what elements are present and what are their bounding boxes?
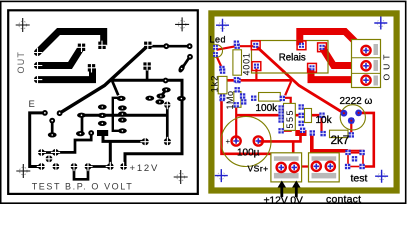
resistor 2k7 body — [330, 130, 349, 137]
square pad S2 — [88, 64, 95, 71]
pad oval E9 — [177, 63, 186, 73]
wire: drop to oval x82 — [81, 115, 84, 132]
fiducial crosshair bottom-left — [20, 167, 28, 175]
wire: S5 stub down — [146, 66, 149, 80]
relay pad K2 — [308, 63, 317, 72]
relay pad K4 — [251, 41, 260, 50]
pad D5 — [42, 110, 48, 116]
capacitor C1 pad + — [232, 136, 241, 145]
wire: pad row horiz — [88, 165, 110, 168]
svg-text:test: test — [351, 172, 368, 184]
red cluster diag — [237, 90, 242, 96]
pad P8 bottom row — [107, 163, 114, 170]
wire: cap horizontal y141 — [103, 136, 145, 141]
component pad rectangle (black) — [97, 130, 108, 136]
red short horiz — [348, 151, 362, 153]
relay outline — [252, 41, 329, 74]
arrow +12V — [280, 184, 283, 198]
pad B18 blue — [235, 87, 240, 92]
pad P7 bottom row — [85, 163, 92, 170]
left board outline — [8, 10, 198, 194]
svg-text:+12V 0V: +12V 0V — [264, 194, 303, 206]
pad near 2k7 — [300, 128, 305, 133]
test button pad 5 — [345, 164, 350, 169]
pad oval E2 — [48, 132, 57, 137]
transistor Q1 pad 2 — [341, 110, 348, 117]
resistor 1k2 body — [218, 76, 227, 93]
fiducial crosshair top-left — [19, 21, 27, 29]
relay pad K5 — [252, 62, 261, 71]
red long diagonal — [256, 46, 344, 113]
svg-text:Relais: Relais — [279, 52, 306, 63]
test button red outline — [348, 151, 363, 167]
pad OUT2 — [34, 62, 41, 69]
pad P2 bottom row — [52, 149, 59, 156]
wire: top thin to LED pads — [148, 45, 190, 48]
red wire T1 — [300, 32, 366, 53]
svg-text:100k: 100k — [256, 103, 279, 114]
pad B12 blue — [278, 128, 283, 133]
svg-text:OUT: OUT — [382, 51, 392, 81]
wire T2 thick — [38, 47, 82, 65]
transistor 2222 outline — [340, 105, 365, 130]
terminal block +12V/0V — [271, 153, 302, 182]
pad P9 bottom row — [120, 163, 127, 170]
svg-text:2222 ω: 2222 ω — [340, 96, 373, 107]
pad cap+ — [142, 138, 149, 145]
pad B4 blue — [310, 130, 315, 135]
resistor 1k2 pad 2 — [220, 94, 225, 99]
pad B21 blue — [219, 66, 224, 71]
svg-text:555: 555 — [285, 109, 295, 129]
terminal block OUT (vertical 3pos) — [352, 40, 381, 88]
pad P6 bottom row — [71, 163, 78, 170]
blue crosshair bottom-right — [378, 173, 385, 180]
wire: vertical to pad row — [109, 141, 112, 166]
pad D3 — [187, 54, 193, 60]
pad D1 — [163, 43, 169, 49]
pad B11 blue — [278, 117, 283, 122]
diode D1 pad 2 — [234, 77, 239, 82]
svg-text:2k7: 2k7 — [331, 133, 350, 147]
pad B22 blue — [234, 102, 239, 107]
pad oval E4 — [145, 96, 154, 101]
pad cap- — [164, 138, 171, 145]
red pad row horiz — [293, 165, 315, 167]
capacitor 100u outline — [221, 117, 271, 167]
svg-text:VSr+: VSr+ — [248, 164, 269, 174]
test button pad 4 — [359, 164, 364, 169]
wire: mid horizontal y115 — [82, 114, 167, 117]
wire: E net L-shape — [30, 113, 45, 167]
pad B8 blue — [280, 96, 285, 101]
wire: U bottom — [74, 167, 88, 179]
pad D7 — [49, 118, 55, 124]
red wire T3 — [311, 68, 366, 80]
pad IC-B5 — [118, 128, 127, 133]
pad oval E1 — [77, 113, 86, 118]
red drop to pad x321 — [320, 115, 322, 132]
red diag O1 — [285, 81, 291, 95]
red wire E-net — [359, 113, 374, 167]
square pad S4 — [144, 42, 151, 49]
svg-text:OUT: OUT — [16, 51, 26, 74]
resistor 100k body — [259, 93, 281, 102]
red vertical to pad row — [292, 141, 295, 166]
OUT terminal pad 2 — [361, 61, 370, 70]
pad B7 blue — [299, 121, 304, 126]
pad IC-B2 — [118, 105, 127, 110]
svg-text:TEST B.P. O VOLT: TEST B.P. O VOLT — [32, 182, 134, 192]
wire: vertical x167 — [166, 105, 169, 142]
pad B1 blue — [235, 44, 240, 49]
square pad S3 — [98, 42, 105, 49]
blue crosshair bottom-left — [218, 172, 225, 179]
terminal block contact — [309, 153, 340, 182]
svg-text:1Mo: 1Mo — [225, 90, 235, 109]
test button pad 3 — [352, 156, 357, 161]
OUT terminal pad 3 — [361, 76, 370, 85]
test button pad 2 — [345, 150, 350, 155]
wire: mid horizontal y80 with right drop — [112, 80, 182, 166]
LED pad anode — [213, 45, 218, 50]
wire: long diagonal — [60, 46, 148, 113]
relay pad K3 — [297, 41, 306, 50]
pad D6 — [57, 110, 63, 116]
pad top of x167 — [164, 102, 171, 109]
wire: LED diagonal — [182, 57, 190, 69]
transistor Q1 pad 3 — [348, 117, 355, 124]
pad B14 blue — [349, 132, 354, 137]
diode D1 pad 1 — [234, 41, 239, 46]
pad B15 blue — [320, 131, 325, 136]
right board olive border — [211, 13, 396, 190]
fiducial crosshair bottom-right — [177, 173, 185, 181]
IC 555 body — [284, 103, 296, 130]
pad IC-B3 — [118, 111, 127, 116]
red top thin to LED — [217, 46, 256, 50]
arrow 0V — [295, 184, 298, 198]
red S5 stub — [255, 66, 257, 80]
OUT terminal pad 1 — [361, 46, 370, 55]
wire: IC vertical — [113, 98, 122, 131]
red wire T2 — [322, 47, 366, 65]
wire: short horiz pads — [41, 151, 55, 154]
pad B17 blue — [240, 93, 245, 98]
wire T3 thick — [38, 68, 93, 80]
pad B2 blue — [235, 78, 240, 83]
diode 4001 body — [233, 50, 242, 75]
resistor 10k body — [305, 109, 312, 123]
pad oval E6 — [162, 87, 171, 92]
red vertical x167 — [235, 105, 237, 142]
pad OUT3 — [34, 76, 41, 83]
wire: transistor path P — [56, 133, 92, 152]
LED pad cathode — [213, 52, 218, 57]
svg-text:Led: Led — [210, 34, 227, 44]
svg-text:+: + — [226, 137, 231, 146]
pad oval E5 — [157, 93, 166, 98]
red LED to 1k2 — [216, 55, 223, 70]
pad B3 blue — [349, 118, 354, 123]
svg-text:1k2: 1k2 — [209, 75, 220, 93]
relay pad K1 — [318, 43, 327, 52]
pad B10 blue — [278, 111, 283, 116]
blue crosshair top-left — [219, 22, 226, 29]
square pad S5 — [143, 62, 150, 69]
pad D8 — [88, 130, 94, 136]
pad IC-A3 — [98, 121, 107, 126]
resistor 1Mo body — [234, 92, 241, 108]
capacitor C1 pad - — [254, 136, 263, 145]
svg-text:10k: 10k — [316, 115, 333, 126]
square pad S1 — [78, 44, 85, 51]
pad P1 bottom row — [38, 149, 45, 156]
resistor 1k2 pad 1 — [220, 68, 225, 73]
pad D4 — [163, 78, 169, 84]
pad oval E7 — [155, 99, 164, 104]
svg-text:+12V: +12V — [130, 163, 160, 174]
pad P5 bottom row — [53, 163, 60, 170]
pad IC-A1 — [98, 104, 107, 109]
transistor Q1 pad 1 — [355, 110, 362, 117]
svg-text:100µ: 100µ — [237, 147, 260, 158]
red filled rect (mirror) — [295, 130, 306, 136]
wire: vertical x52 — [51, 121, 54, 135]
svg-text:contact: contact — [326, 194, 361, 206]
pad OUT1 — [34, 49, 41, 56]
pad B5 blue — [299, 104, 304, 109]
red mid horizontal y115 — [236, 114, 321, 117]
test button pad 1 — [359, 150, 364, 155]
red band to test cluster — [312, 131, 348, 151]
pad D2 — [187, 43, 193, 49]
pad B16 blue — [251, 96, 256, 101]
svg-text:4001: 4001 — [241, 52, 251, 75]
blue crosshair top-right — [377, 19, 384, 26]
pad IC-B4 — [118, 117, 127, 122]
fiducial crosshair top-right — [178, 21, 186, 29]
red mid horizontal y80 — [222, 80, 292, 166]
pad oval E3 — [76, 131, 85, 136]
pad B13 blue — [319, 113, 324, 118]
pad P3 bottom row — [46, 155, 53, 162]
pad oval E8 — [177, 96, 186, 101]
pad P4 bottom row — [38, 163, 45, 170]
LED outline — [210, 45, 223, 58]
pad B9 blue — [278, 105, 283, 110]
red vertical x52 — [350, 121, 352, 135]
pad B19 blue — [241, 99, 246, 104]
red IC vertical — [282, 98, 291, 131]
pad IC-B1 — [117, 96, 126, 101]
pad B20 blue — [219, 96, 224, 101]
wire T1 thick: pad OUT1 to relay pad — [38, 32, 104, 53]
wire: small cluster diagonal — [161, 90, 166, 96]
red U bottom — [316, 167, 330, 179]
pad IC-A2 — [98, 113, 107, 118]
pad B6 blue — [299, 113, 304, 118]
svg-text:E: E — [29, 99, 35, 110]
wire: diag into oval O1 — [112, 81, 118, 95]
red cap horizontal — [258, 136, 300, 141]
